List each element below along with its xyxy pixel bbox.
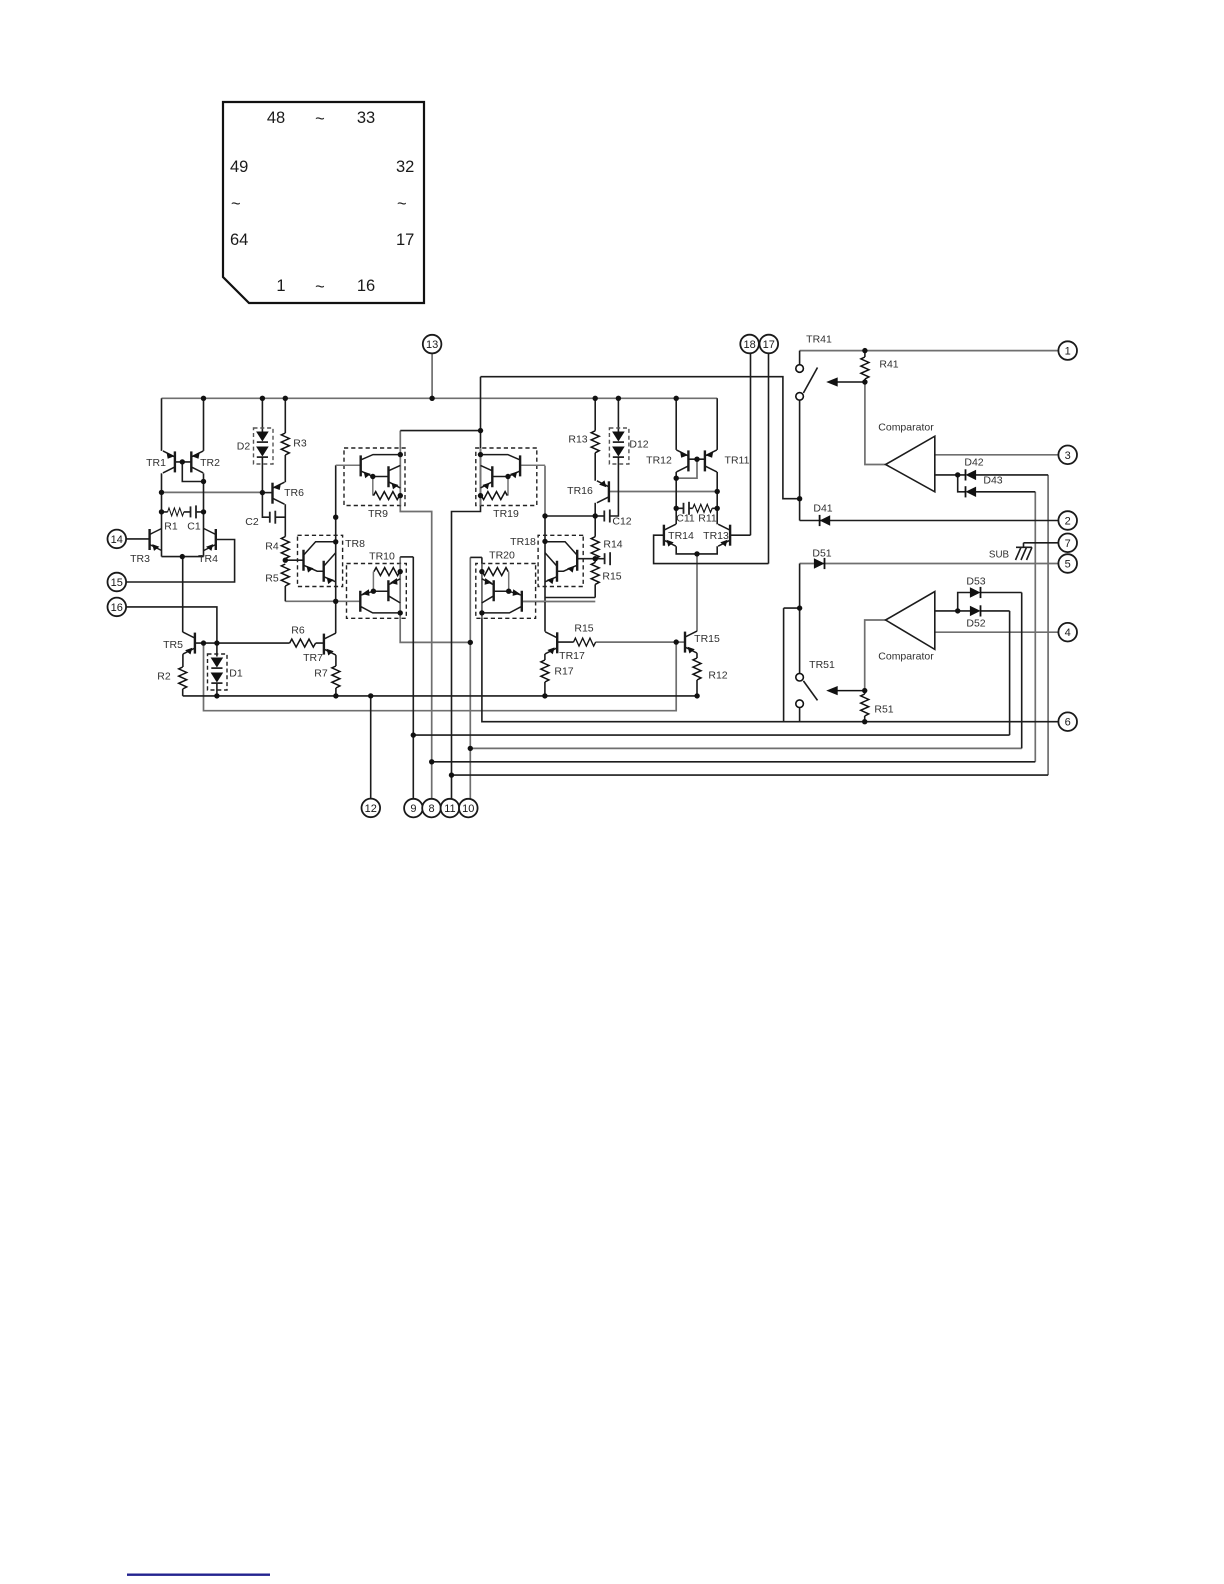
svg-text:10: 10: [462, 803, 474, 815]
svg-text:R13: R13: [568, 434, 587, 446]
svg-text:16: 16: [111, 602, 123, 614]
svg-text:TR13: TR13: [703, 530, 729, 542]
svg-text:D43: D43: [983, 475, 1002, 487]
svg-text:R2: R2: [157, 671, 171, 683]
svg-text:2: 2: [1065, 516, 1071, 528]
svg-text:TR11: TR11: [725, 455, 750, 467]
svg-text:17: 17: [396, 231, 414, 249]
svg-text:TR3: TR3: [130, 553, 150, 565]
svg-text:TR6: TR6: [284, 487, 304, 499]
svg-text:TR8: TR8: [345, 538, 365, 550]
svg-text:D51: D51: [812, 548, 831, 560]
svg-text:TR17: TR17: [559, 650, 585, 662]
svg-text:R3: R3: [293, 438, 307, 450]
svg-text:TR4: TR4: [198, 553, 218, 565]
svg-text:~: ~: [315, 110, 325, 128]
svg-text:D1: D1: [229, 668, 243, 680]
svg-text:6: 6: [1065, 717, 1071, 729]
svg-text:TR51: TR51: [809, 659, 835, 671]
svg-text:R15: R15: [602, 571, 621, 583]
svg-text:R12: R12: [708, 670, 727, 682]
svg-text:R41: R41: [879, 359, 898, 371]
svg-text:D12: D12: [629, 439, 648, 451]
svg-text:R11: R11: [698, 513, 717, 525]
svg-text:14: 14: [111, 534, 123, 546]
svg-text:D41: D41: [813, 503, 832, 515]
svg-text:12: 12: [365, 803, 377, 815]
svg-text:48: 48: [267, 109, 285, 127]
svg-text:Comparator: Comparator: [878, 651, 934, 663]
svg-text:64: 64: [230, 231, 248, 249]
svg-text:3: 3: [1065, 450, 1071, 462]
svg-text:C2: C2: [245, 516, 259, 528]
svg-text:7: 7: [1065, 538, 1071, 550]
svg-text:D42: D42: [964, 457, 983, 469]
svg-text:TR14: TR14: [668, 530, 694, 542]
svg-text:SUB: SUB: [989, 550, 1010, 561]
svg-text:TR1: TR1: [146, 457, 166, 469]
svg-text:TR7: TR7: [303, 652, 323, 664]
svg-text:TR41: TR41: [806, 334, 832, 346]
svg-text:1: 1: [1065, 346, 1071, 358]
svg-text:R4: R4: [265, 541, 279, 553]
svg-text:18: 18: [743, 339, 755, 351]
svg-text:Comparator: Comparator: [878, 422, 934, 434]
svg-text:TR2: TR2: [200, 457, 220, 469]
svg-text:~: ~: [397, 195, 407, 213]
svg-text:9: 9: [410, 803, 416, 815]
svg-text:R7: R7: [314, 668, 328, 680]
svg-text:49: 49: [230, 158, 248, 176]
svg-text:11: 11: [444, 803, 455, 815]
svg-text:1: 1: [276, 277, 285, 295]
svg-text:R51: R51: [874, 704, 893, 716]
svg-text:13: 13: [426, 339, 438, 351]
svg-text:5: 5: [1065, 559, 1071, 571]
svg-text:TR20: TR20: [489, 550, 515, 562]
svg-text:D2: D2: [237, 441, 251, 453]
svg-text:C11: C11: [676, 513, 695, 525]
svg-text:R15: R15: [574, 623, 593, 635]
svg-text:C1: C1: [187, 521, 201, 533]
svg-text:R5: R5: [265, 573, 279, 585]
svg-text:TR10: TR10: [369, 551, 395, 563]
svg-text:16: 16: [357, 277, 375, 295]
svg-text:TR15: TR15: [694, 633, 720, 645]
svg-text:17: 17: [763, 339, 775, 351]
svg-text:R17: R17: [554, 666, 573, 678]
svg-text:~: ~: [315, 278, 325, 296]
svg-text:4: 4: [1065, 627, 1071, 639]
svg-text:R14: R14: [603, 539, 622, 551]
svg-text:TR19: TR19: [493, 508, 519, 520]
svg-text:D53: D53: [966, 576, 985, 588]
svg-text:~: ~: [231, 195, 241, 213]
svg-text:C12: C12: [612, 516, 631, 528]
svg-text:TR5: TR5: [163, 639, 183, 651]
svg-text:R1: R1: [164, 521, 178, 533]
svg-text:TR16: TR16: [567, 485, 593, 497]
svg-text:TR12: TR12: [646, 455, 672, 467]
svg-text:TR18: TR18: [510, 536, 536, 548]
svg-text:D52: D52: [966, 618, 985, 630]
svg-text:32: 32: [396, 158, 414, 176]
svg-text:8: 8: [428, 803, 434, 815]
svg-text:R6: R6: [291, 625, 305, 637]
svg-text:15: 15: [111, 577, 123, 589]
svg-text:33: 33: [357, 109, 375, 127]
svg-text:TR9: TR9: [368, 508, 388, 520]
